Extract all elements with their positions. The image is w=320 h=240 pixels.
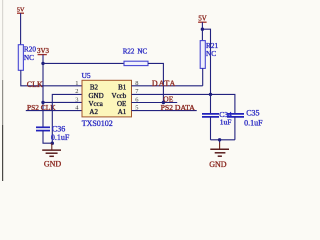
pin names U5 — [89, 84, 127, 117]
svg-text:CLK: CLK — [27, 80, 43, 89]
svg-text:C35: C35 — [246, 109, 259, 118]
wire C36 to GND — [43, 131, 52, 144]
svg-text:OE: OE — [117, 100, 126, 108]
resistor R21 — [200, 41, 218, 69]
node GND junction right — [218, 138, 221, 141]
wire R21 to DATA — [202, 68, 204, 85]
svg-text:3: 3 — [75, 96, 78, 103]
wire gnd stub left — [51, 143, 53, 149]
svg-text:0.1uF: 0.1uF — [244, 119, 263, 128]
wire 3V3 stub — [42, 55, 44, 64]
svg-text:5V: 5V — [17, 7, 25, 14]
svg-text:NC: NC — [24, 53, 34, 62]
svg-text:GND: GND — [209, 160, 227, 169]
pin numbers U5 — [75, 80, 139, 112]
svg-text:A2: A2 — [89, 108, 98, 116]
svg-text:1: 1 — [75, 80, 78, 87]
svg-text:Vcca: Vcca — [89, 100, 104, 108]
svg-text:0.1uF: 0.1uF — [51, 133, 70, 142]
ground GND left — [42, 150, 61, 168]
sheet border line left edge — [2, 0, 3, 181]
svg-text:TXS0102: TXS0102 — [82, 119, 113, 128]
resistor R20 — [18, 45, 36, 71]
capacitor C34 — [202, 110, 232, 126]
svg-text:U5: U5 — [82, 71, 91, 80]
svg-text:R22: R22 — [123, 47, 135, 55]
svg-text:PS2 DATA: PS2 DATA — [161, 103, 196, 112]
node GND junction left — [51, 142, 54, 145]
svg-text:5V: 5V — [198, 16, 206, 23]
wire R22 to OE — [148, 63, 163, 102]
power port 3V3 — [37, 47, 50, 55]
wire 3V3 down to Vcca and C36 — [42, 63, 44, 127]
svg-text:NC: NC — [137, 47, 147, 55]
svg-text:B2: B2 — [90, 84, 99, 92]
node OE junction — [162, 101, 165, 104]
wire Vccb pin7 — [132, 94, 235, 114]
svg-text:GND: GND — [89, 92, 104, 100]
svg-text:NC: NC — [206, 49, 216, 58]
node Vccb junction — [209, 93, 212, 96]
power port 5V (right) — [198, 16, 207, 23]
wire 5V to R21 — [201, 29, 203, 40]
wire C34 down — [210, 117, 212, 140]
node Vcca junction — [41, 101, 44, 104]
svg-text:2: 2 — [75, 88, 78, 95]
svg-text:GND: GND — [44, 160, 62, 169]
svg-text:3V3: 3V3 — [37, 47, 50, 55]
wire 5V stub right — [201, 22, 203, 29]
capacitor C36 — [36, 124, 70, 142]
wire R20 to CLK — [21, 70, 82, 86]
resistor R22 — [123, 47, 148, 65]
svg-text:A1: A1 — [118, 108, 127, 116]
capacitor C35 — [227, 109, 263, 128]
wire 3V3 rail to R22 — [43, 62, 124, 64]
svg-text:B1: B1 — [118, 84, 127, 92]
wire OE pin6 — [132, 102, 178, 104]
node 5V junction — [201, 28, 204, 31]
power port 5V (left) — [17, 7, 25, 14]
node 3V3 junction — [41, 62, 44, 65]
svg-text:C36: C36 — [52, 124, 65, 133]
wire C35 down — [234, 117, 236, 140]
ground GND right — [209, 149, 229, 169]
wire 5V to R20 — [20, 13, 22, 45]
wire DATA pin8 — [132, 85, 203, 87]
wire GND stub right — [219, 140, 221, 143]
wire GND pin2 — [52, 94, 82, 143]
svg-text:DATA: DATA — [152, 79, 176, 88]
wire 5V branch to Vccb — [202, 29, 210, 94]
wire bottom rail caps — [211, 139, 235, 141]
wire Vccb to C34 — [210, 94, 212, 114]
wire A2 pin4 — [26, 110, 82, 112]
wire Vcca pin3 — [43, 101, 82, 103]
svg-text:Vccb: Vccb — [112, 92, 127, 100]
svg-text:1uF: 1uF — [220, 117, 232, 126]
wire PS2 DATA pin5 — [132, 110, 197, 112]
IC U5 TXS0102 — [82, 71, 132, 128]
